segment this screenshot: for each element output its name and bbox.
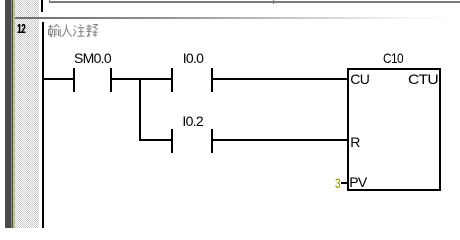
contact I0.0 right plate [211, 68, 213, 92]
previous network comment box bottom edge [49, 1, 460, 3]
label SM0.0 [74, 51, 111, 65]
wire I0.0 to counter CU input [213, 78, 347, 80]
wire I0.2 to counter R input [213, 139, 347, 141]
glyph hatch for 入 [62, 24, 72, 36]
gutter stipple column [15, 0, 39, 228]
branch junction vertical wire [139, 78, 141, 141]
previous network power rail stub [41, 0, 43, 12]
wire SM0.0 to I0.0 [112, 78, 172, 80]
window border light line [11, 0, 12, 228]
label C10 [383, 51, 403, 65]
network comment text 输入注释 (drawn as SVG strokes, gray) [48, 24, 98, 38]
pin label CU [350, 72, 369, 86]
left power rail [42, 22, 44, 228]
contact SM0.0 right plate [110, 68, 112, 92]
previous network comment box left stub [49, 0, 51, 3]
network separator gradient line [15, 17, 460, 19]
label I0.0 [183, 51, 204, 65]
PV constant value 3 [335, 176, 340, 190]
contact I0.2 left plate [171, 129, 173, 153]
wire PV constant stub [341, 182, 348, 184]
window border green line [13, 0, 15, 228]
wire rail to SM0.0 [44, 78, 73, 80]
pin label PV [349, 175, 366, 189]
contact SM0.0 left plate [73, 68, 75, 92]
previous network comment box cell tick [273, 0, 275, 4]
glyph hatch for 输 [49, 24, 61, 37]
glyph hatch for 注 [73, 24, 85, 36]
pin label CTU [408, 72, 438, 86]
window border dark strip 2 [12, 0, 13, 228]
label I0.2 [182, 114, 203, 128]
branch wire junction to I0.2 [139, 139, 171, 141]
network number 12 [17, 22, 25, 36]
counter box U C10 CTU outline [347, 68, 441, 192]
contact I0.0 left plate [171, 68, 173, 92]
window border dark strip [5, 0, 11, 228]
glyph hatch for 释 [86, 24, 97, 37]
contact I0.2 right plate [211, 129, 213, 153]
pin label R [350, 135, 359, 149]
